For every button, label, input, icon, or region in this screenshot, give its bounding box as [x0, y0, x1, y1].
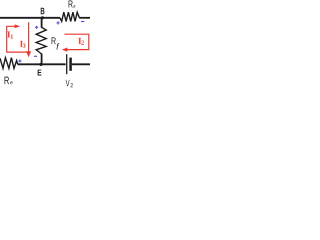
label B — [41, 8, 45, 14]
wire: stem from B down to Rf — [41, 18, 43, 28]
node E junction dot — [39, 63, 42, 66]
polarity + (above Re right end), blue — [18, 59, 21, 62]
label V2 — [66, 80, 70, 86]
current arrow I3 (vertical, pointing down) — [28, 22, 30, 51]
polarity + (left of Rf top), blue — [35, 26, 38, 29]
resistor Rf (middle vertical, zigzag) — [36, 27, 46, 54]
label Re — [5, 77, 9, 84]
node B junction dot — [41, 16, 44, 19]
wire: top rail right segment — [79, 17, 90, 19]
label I1 — [7, 32, 10, 38]
label Rf — [52, 37, 56, 44]
wire: top rail left segment — [0, 17, 60, 19]
label I2 — [78, 38, 81, 44]
battery V2 short plate — [69, 58, 72, 71]
battery V2 long plate — [66, 54, 68, 74]
label E — [38, 70, 42, 76]
polarity + (below Ra left), blue — [57, 21, 60, 24]
resistor Re (bottom left, zigzag) — [0, 58, 18, 69]
label Rx — [69, 0, 73, 7]
polarity - (below Ra right), blue — [81, 21, 84, 23]
resistor Rx (top right, zigzag) — [60, 12, 79, 21]
wire: stem from Rf down to E — [41, 54, 43, 65]
wire: bottom rail from battery to right edge — [72, 63, 90, 65]
loop arrow I2 (right loop: top bar, right side, bottom arrow) — [64, 34, 88, 49]
loop arrow I1 (left loop: bottom bar, left side, top arrow) — [7, 26, 29, 52]
polarity - (left of Rf bottom), blue — [34, 55, 37, 57]
wire: bottom rail from Re to battery — [18, 63, 66, 65]
label I3 — [20, 41, 23, 47]
